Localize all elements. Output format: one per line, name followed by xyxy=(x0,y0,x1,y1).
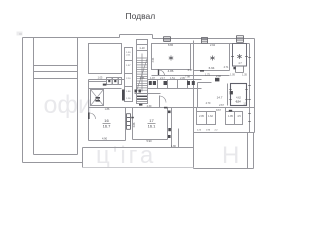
vent box cluster b xyxy=(113,78,119,85)
svg-text:Подвал: Подвал xyxy=(126,11,156,21)
exterior step at court xyxy=(82,148,84,168)
sanitary stub a xyxy=(196,108,198,112)
exterior top-middle wall xyxy=(120,34,153,36)
room R3 right wall xyxy=(229,44,231,71)
stair center line xyxy=(141,54,143,92)
dark door marks xyxy=(88,67,236,138)
corridor upper line xyxy=(152,75,230,77)
door mark R5 left xyxy=(88,113,90,120)
door mark DR2 corner xyxy=(230,91,233,94)
door mark below R2 xyxy=(158,70,159,76)
closet divider 1 xyxy=(157,80,159,89)
door swing arc R5 xyxy=(90,113,96,119)
vent dot a xyxy=(108,80,110,82)
svg-text:офи: офи xyxy=(44,91,92,119)
closet divider 4 xyxy=(187,80,189,89)
hatch cell in small column xyxy=(122,90,125,101)
svg-text:1.86: 1.86 xyxy=(105,108,110,111)
room 14.7 right wall xyxy=(227,84,229,106)
dark dash corridor 2 xyxy=(139,90,142,93)
vent cell closet 1 xyxy=(153,81,156,85)
sanitary box 2 divider xyxy=(234,112,236,125)
svg-text:1.35: 1.35 xyxy=(242,73,247,76)
svg-text:2.92: 2.92 xyxy=(216,75,221,78)
vent cell closet 4 xyxy=(192,81,195,85)
svg-text:1.86: 1.86 xyxy=(140,77,145,80)
stair shaft xyxy=(137,40,148,104)
faint smudge near top-left corner xyxy=(17,32,23,36)
dark walled room DR upper right xyxy=(231,44,247,106)
vent shaft ladder 1 xyxy=(164,37,171,42)
svg-text:3.04: 3.04 xyxy=(95,99,100,102)
tiny dimension and room labels xyxy=(95,43,248,148)
svg-text:5.90: 5.90 xyxy=(146,139,152,143)
exterior top-right wall xyxy=(153,38,255,40)
vent mark R6 wall c xyxy=(168,135,171,138)
room R6 left wall xyxy=(132,108,134,140)
court bottom faint wall xyxy=(83,167,194,169)
svg-text:ц'іга: ц'іга xyxy=(96,142,156,169)
wing band wall 2 xyxy=(34,71,78,73)
sanitary box 2 xyxy=(226,112,243,125)
annex right inner wall xyxy=(247,133,249,169)
svg-text:2.05: 2.05 xyxy=(199,115,204,118)
left wing inner bottom wall xyxy=(34,154,78,156)
svg-text:16.1: 16.1 xyxy=(148,123,157,128)
entry stair diagonals xyxy=(91,90,103,105)
R4 vestibule below xyxy=(236,67,244,73)
wall hatch ticks on DR2 xyxy=(229,90,247,100)
entry stair dark bar a xyxy=(96,97,101,99)
exterior right wall xyxy=(254,39,256,133)
column divider 2 xyxy=(125,73,133,75)
main block bottom wall xyxy=(83,147,194,149)
room R6 outer double wall xyxy=(171,108,173,148)
star symbol in R2 xyxy=(169,54,242,61)
sanitary box 1 xyxy=(197,112,216,125)
stair run diagonal xyxy=(137,59,147,90)
stair lower treads xyxy=(137,94,148,102)
sanitary stub b xyxy=(225,108,227,112)
corridor door jamb xyxy=(103,84,107,86)
room R5 left wall xyxy=(88,80,90,141)
dark dash under stair xyxy=(139,104,142,106)
wall hatch ticks on R4 xyxy=(229,57,250,122)
vent cell closet 2 xyxy=(164,81,168,85)
svg-text:3.86: 3.86 xyxy=(133,122,136,127)
svg-text:1-10: 1-10 xyxy=(139,46,145,50)
vent shaft ladder 3 xyxy=(237,36,244,43)
svg-text:1.51: 1.51 xyxy=(170,77,175,80)
door mark sanitary 2 xyxy=(229,110,232,112)
svg-text:1.97: 1.97 xyxy=(150,77,155,80)
main floor dividing wall xyxy=(89,107,255,109)
room 14.7 top wall xyxy=(198,82,212,84)
label fraction bar 16 xyxy=(103,122,156,124)
left small rooms column xyxy=(125,48,133,102)
wing band wall 1 xyxy=(34,65,78,67)
room 14.7 left wall xyxy=(197,83,199,108)
room R6 bottom wall xyxy=(133,139,168,141)
dark dash corridor 3 xyxy=(137,96,147,97)
sanitary box 1 divider xyxy=(206,112,208,125)
svg-text:4.04: 4.04 xyxy=(152,57,155,62)
svg-text:Н: Н xyxy=(222,142,239,169)
annex right outer wall xyxy=(253,133,255,169)
svg-text:7.98: 7.98 xyxy=(185,75,190,78)
svg-text:4.90: 4.90 xyxy=(102,137,108,141)
svg-text:1.05: 1.05 xyxy=(230,73,235,76)
vent cell closet 3 xyxy=(187,81,190,85)
entry stair room xyxy=(91,90,104,106)
closet divider 2 xyxy=(167,80,169,89)
vent shaft ladder 2 xyxy=(202,37,208,43)
svg-text:1.80: 1.80 xyxy=(171,145,176,148)
svg-text:2.17: 2.17 xyxy=(188,69,193,72)
svg-text:1.62: 1.62 xyxy=(208,115,213,118)
duct ladder between R5 and R6 xyxy=(127,114,131,130)
wing band wall 3 xyxy=(34,78,78,80)
room R5 bottom wall xyxy=(89,140,126,142)
corridor line b xyxy=(89,88,202,90)
door mark below R3 xyxy=(200,70,204,72)
exterior top-left wall xyxy=(23,37,120,39)
corridor double line stub xyxy=(89,81,107,83)
svg-text:4.70: 4.70 xyxy=(206,102,211,105)
room R5 right wall xyxy=(125,108,127,141)
room R7 partition xyxy=(178,129,180,148)
svg-text:4.71: 4.71 xyxy=(224,66,229,69)
svg-text:6.94: 6.94 xyxy=(209,66,215,70)
star symbol in R4 xyxy=(237,54,241,59)
exterior step down xyxy=(152,35,154,39)
vent cell closet 0 xyxy=(149,81,152,85)
svg-text:16.7: 16.7 xyxy=(103,123,112,128)
hall left wall xyxy=(77,38,79,155)
stair top landing line xyxy=(137,45,148,51)
stair treads xyxy=(137,54,148,102)
door swing arc R2 xyxy=(159,70,165,76)
svg-text:1.95: 1.95 xyxy=(228,115,233,118)
svg-text:2.67: 2.67 xyxy=(219,104,224,107)
svg-text:1.05: 1.05 xyxy=(98,77,103,80)
column divider 3 xyxy=(125,86,133,88)
dark walled room DR2 middle right xyxy=(231,84,247,106)
svg-text:4.62: 4.62 xyxy=(236,96,241,99)
room R3 bottom wall xyxy=(194,70,230,72)
dark dash corridor 1 xyxy=(135,90,138,93)
corridor door jamb mid xyxy=(159,96,161,108)
rooms band bottom wall xyxy=(194,132,255,134)
dimension ticks on inner right wall xyxy=(248,58,250,122)
vent mark R6 wall a xyxy=(168,111,171,114)
room 16 label xyxy=(103,118,157,128)
room R6 right wall xyxy=(167,108,169,140)
annex left wall xyxy=(193,41,195,169)
svg-text:4.86: 4.86 xyxy=(168,69,174,73)
rooms ceiling inner line xyxy=(152,43,250,45)
svg-text:2.17: 2.17 xyxy=(160,77,165,80)
vent dot b xyxy=(114,80,116,82)
annex bottom wall xyxy=(194,168,254,170)
room R1 square xyxy=(89,44,122,74)
exterior left wall xyxy=(22,38,24,163)
vestibule dark mark xyxy=(233,67,235,69)
tick R6 left wall xyxy=(131,117,134,119)
corridor line a xyxy=(89,79,202,81)
svg-text:14.7: 14.7 xyxy=(217,96,223,100)
vent box cluster c xyxy=(119,78,122,85)
closet divider 3 xyxy=(177,80,179,89)
svg-text:2.92: 2.92 xyxy=(210,43,216,47)
door mark R6 top xyxy=(164,107,168,109)
vent box cluster a xyxy=(107,78,113,85)
svg-text:8.67: 8.67 xyxy=(216,109,221,112)
room R2 xyxy=(152,44,191,70)
entry stair dark bar b xyxy=(96,100,101,102)
corridor line c xyxy=(135,93,161,95)
star symbol in R3 xyxy=(210,56,214,61)
door mark corridor right xyxy=(215,78,219,82)
closet divider 5 xyxy=(147,80,149,89)
svg-text:4.30: 4.30 xyxy=(147,105,152,108)
svg-text:2.05: 2.05 xyxy=(180,77,185,80)
vent mark R6 wall b xyxy=(168,128,171,131)
left wing inner wall xyxy=(33,38,35,155)
exterior left-wing bottom wall xyxy=(23,162,83,164)
exterior step up xyxy=(119,35,121,38)
svg-text:1.75: 1.75 xyxy=(205,73,210,76)
column divider 1 xyxy=(125,60,133,62)
corridor door arc mid xyxy=(160,96,167,103)
svg-text:8.86: 8.86 xyxy=(168,43,174,47)
inner right wall xyxy=(249,44,251,133)
